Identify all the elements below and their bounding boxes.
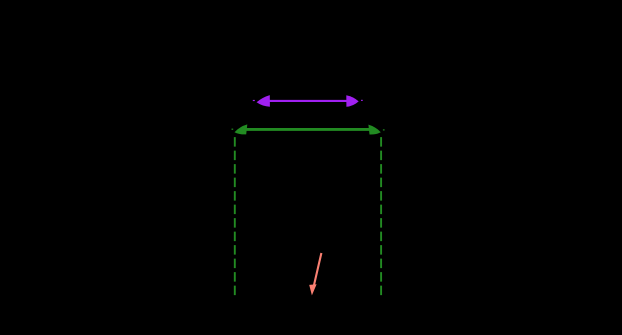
purple right end dot: [361, 100, 363, 101]
green right end dot: [383, 129, 385, 130]
left green dashed vertical line: [234, 137, 236, 296]
green left end dot: [232, 129, 234, 130]
right green dashed vertical line: [380, 137, 382, 296]
salmon annotation arrow pointing down-left: [309, 253, 321, 295]
green double-headed arrow (outer width annotation): [235, 124, 381, 134]
purple double-headed arrow (inner width annotation): [257, 95, 359, 107]
purple left end dot: [253, 100, 255, 101]
